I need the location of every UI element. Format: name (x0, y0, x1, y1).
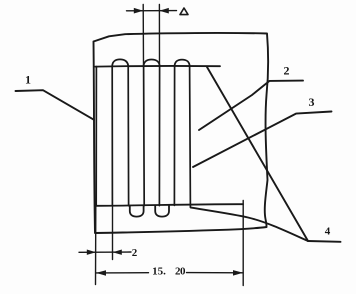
meander bottom bus line (95, 204, 243, 206)
meander leg L5 (158, 66, 160, 205)
delta symbol (180, 8, 188, 15)
leader line for label 2 (199, 81, 303, 130)
svg-text:2: 2 (284, 64, 290, 78)
bottom 2-dimension line (79, 251, 131, 253)
15-20 dimension right arrowhead (233, 270, 243, 276)
svg-text:3: 3 (309, 95, 315, 109)
meander bottom arc 1 (130, 206, 144, 217)
meander top bus line (95, 65, 220, 68)
label 4 underline (308, 240, 341, 243)
leader line for label 1 (16, 90, 95, 120)
meander leg L6 (173, 66, 175, 205)
15-20 dimension line left part (96, 272, 149, 274)
leader line from top bus to label 4 (207, 67, 308, 241)
bottom 2-dimension left arrowhead (87, 250, 96, 255)
delta dimension left extension line (142, 5, 144, 67)
plate outline (94, 33, 269, 233)
meander leg L1 (95, 67, 97, 206)
meander leg L2 (111, 66, 113, 205)
delta dimension line (127, 10, 177, 12)
svg-text:2: 2 (132, 247, 138, 259)
meander top arc 3 (175, 60, 190, 67)
meander leg L3 (127, 66, 129, 205)
bottom 2-dimension left extension line (95, 206, 97, 285)
15-20 dimension line right part (187, 272, 244, 274)
meander bottom arc 2 (155, 206, 169, 217)
meander top arc 1 (112, 59, 128, 66)
bottom 2-dimension right arrowhead (113, 250, 122, 255)
svg-text:15.: 15. (152, 265, 166, 277)
delta dimension right extension line (158, 5, 160, 67)
svg-text:1: 1 (25, 73, 31, 87)
svg-text:4: 4 (325, 226, 331, 238)
15-20 dimension right extension line (242, 201, 244, 286)
meander leg L4 (143, 66, 146, 205)
meander leg L7 (189, 66, 192, 207)
leader line from bottom bus corner to label 4 (191, 208, 308, 241)
bottom 2-dimension right extension line (112, 206, 114, 260)
15-20 dimension left arrowhead (96, 270, 106, 276)
delta dimension right arrowhead (159, 8, 168, 14)
meander top arc 2 (144, 60, 160, 67)
leader line for label 3 (193, 112, 332, 168)
svg-text:20: 20 (175, 265, 186, 277)
delta dimension left arrowhead (134, 8, 143, 14)
